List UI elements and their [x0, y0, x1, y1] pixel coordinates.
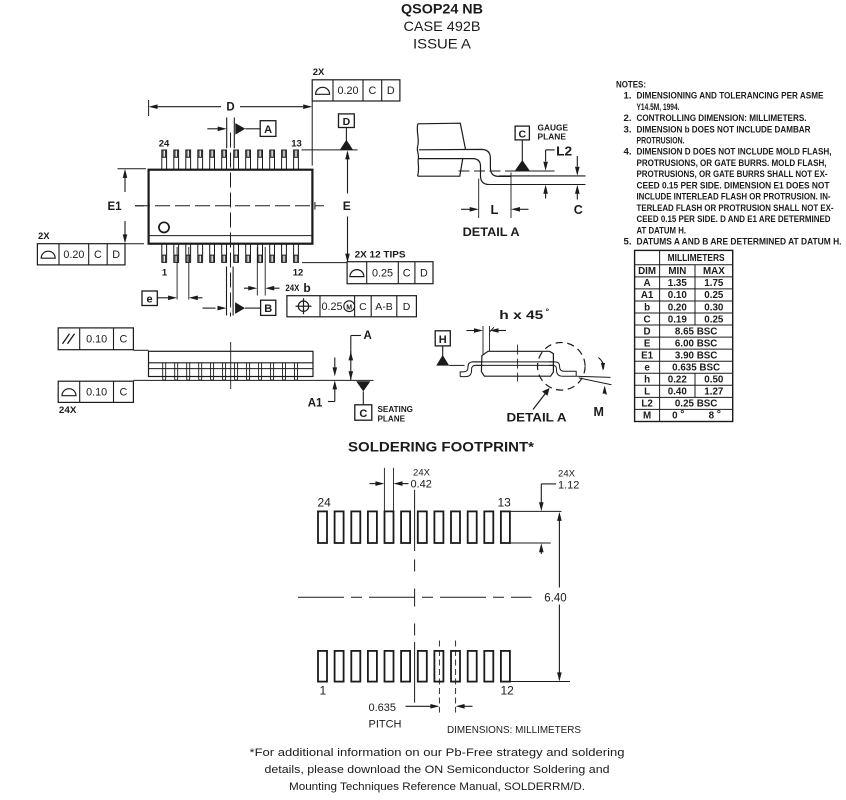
dimension 0.635 leader and arrows	[406, 705, 431, 707]
svg-text:E1: E1	[641, 350, 654, 361]
svg-text:CONTROLLING DIMENSION: MILLIME: CONTROLLING DIMENSION: MILLIMETERS.	[637, 113, 807, 124]
svg-text:0.22: 0.22	[668, 375, 688, 386]
svg-text:8.65 BSC: 8.65 BSC	[675, 326, 717, 337]
svg-text:1.12: 1.12	[558, 480, 579, 492]
svg-text:2X 12 TIPS: 2X 12 TIPS	[355, 250, 406, 261]
svg-text:PITCH: PITCH	[369, 719, 402, 731]
svg-text:0.10: 0.10	[86, 387, 107, 399]
svg-text:b: b	[303, 281, 310, 295]
end view right lead	[549, 362, 576, 376]
datum label B box	[261, 300, 276, 315]
footprint pad 6 bottom	[401, 651, 410, 682]
dimension b arrows	[244, 287, 249, 289]
side view body outline	[149, 351, 314, 376]
svg-text:2X: 2X	[313, 67, 325, 78]
feature control frame 0.25 C D (12 tips)	[347, 262, 433, 284]
svg-text:PLANE: PLANE	[378, 413, 406, 423]
pin 11 bottom lead	[282, 244, 287, 263]
svg-text:0.42: 0.42	[411, 479, 432, 491]
frame leader line left	[125, 243, 144, 245]
chamfer dimension h extension lines	[482, 326, 484, 355]
svg-text:DIMENSIONS: MILLIMETERS: DIMENSIONS: MILLIMETERS	[447, 725, 581, 736]
svg-text:1.27: 1.27	[704, 387, 724, 398]
side view centerline	[230, 342, 232, 389]
seating plane datum triangle	[356, 381, 370, 391]
lead angle M arc arrow upper	[598, 358, 603, 370]
svg-text:C: C	[359, 408, 367, 420]
centerline end tick	[314, 202, 316, 210]
side view lead 10	[271, 363, 274, 380]
svg-text:24X: 24X	[558, 469, 576, 480]
svg-text:C: C	[403, 267, 411, 279]
svg-text:INCLUDE INTERLEAD FLASH OR PRO: INCLUDE INTERLEAD FLASH OR PROTRUSION. I…	[637, 192, 831, 203]
footprint pad 16 top	[451, 511, 460, 543]
section arrow B	[203, 307, 216, 309]
svg-text:0.20: 0.20	[63, 249, 84, 261]
svg-text:4.: 4.	[624, 147, 632, 158]
pin tips datum line top	[302, 149, 358, 151]
pin 14 top lead	[282, 150, 287, 170]
dimension 0.42 extension lines	[383, 468, 385, 511]
svg-text:A1: A1	[641, 290, 654, 301]
svg-text:ISSUE A: ISSUE A	[413, 35, 472, 51]
pin 4 bottom lead	[198, 244, 203, 263]
package body top view	[149, 170, 313, 244]
svg-text:A: A	[644, 278, 651, 289]
dimension 0.42 arrows	[370, 483, 376, 485]
pin 8 bottom lead	[246, 244, 251, 263]
pin 1 indicator circle	[159, 222, 169, 232]
side view lead shoulder line	[149, 362, 314, 364]
svg-text:Y14.5M, 1994.: Y14.5M, 1994.	[637, 102, 680, 113]
svg-text:CASE 492B: CASE 492B	[404, 18, 481, 34]
svg-text:E1: E1	[107, 201, 122, 213]
pin 21 top lead	[198, 150, 203, 170]
svg-text:0.25: 0.25	[704, 290, 724, 301]
side view lead 6	[223, 363, 226, 380]
svg-text:2X: 2X	[38, 231, 50, 242]
pin 13 top lead	[294, 150, 299, 170]
svg-text:Mounting Techniques Reference: Mounting Techniques Reference Manual, SO…	[289, 781, 585, 793]
svg-text:PROTRUSIONS, OR GATE BURRS. MO: PROTRUSIONS, OR GATE BURRS. MOLD FLASH,	[637, 158, 827, 169]
pin 22 top lead	[186, 150, 191, 170]
svg-text:DIMENSIONING AND TOLERANCING P: DIMENSIONING AND TOLERANCING PER ASME	[637, 91, 825, 102]
lead angle M arrow lower	[605, 388, 607, 395]
svg-text:0.635 BSC: 0.635 BSC	[672, 363, 720, 374]
footprint pad 1 bottom	[318, 651, 327, 682]
svg-text:3.: 3.	[624, 124, 632, 135]
footprint pad 11 bottom	[484, 651, 493, 682]
gauge plane solid line	[510, 170, 555, 172]
dimension L extension lines	[478, 179, 480, 219]
svg-text:PROTRUSIONS, OR GATE BURRS SHA: PROTRUSIONS, OR GATE BURRS SHALL NOT EX-	[637, 169, 828, 180]
pin 23 top lead	[174, 150, 179, 170]
svg-text:6.00 BSC: 6.00 BSC	[675, 338, 717, 349]
svg-text:1.: 1.	[624, 91, 632, 102]
svg-text:L2: L2	[556, 144, 572, 158]
svg-text:e: e	[147, 294, 153, 306]
footprint pad 5 bottom	[385, 651, 394, 682]
dimension E1 arrows	[124, 171, 126, 192]
footprint horizontal centerline	[298, 596, 532, 598]
detail A callout dashed circle	[538, 343, 586, 391]
svg-text:C: C	[359, 301, 367, 313]
svg-text:A: A	[364, 330, 372, 342]
pin 12 bottom lead	[294, 244, 299, 263]
svg-text:E: E	[343, 199, 351, 213]
svg-text:C: C	[94, 249, 102, 261]
pin 1 bottom lead	[162, 244, 167, 263]
svg-text:°: °	[717, 408, 721, 420]
detail A lead gull-wing	[418, 149, 511, 184]
gauge plane leader and triangle	[521, 140, 523, 162]
side view lead 2	[175, 363, 178, 380]
dimension D extension line left	[148, 100, 150, 116]
parallelism frame 0.10 C	[58, 328, 133, 350]
detail A callout arrow	[533, 393, 546, 409]
position symbol	[298, 301, 308, 311]
horizontal centerline top view	[135, 205, 324, 207]
side view lead 5	[211, 363, 214, 380]
svg-text:D: D	[343, 116, 351, 128]
svg-text:0: 0	[672, 411, 678, 422]
svg-text:0.40: 0.40	[668, 387, 688, 398]
footprint pad 8 bottom	[434, 651, 443, 682]
datum D box	[339, 114, 355, 128]
body bottom inner line	[150, 235, 312, 237]
pin 6 bottom lead	[222, 244, 227, 263]
svg-text:DATUMS A AND B ARE DETERMINED: DATUMS A AND B ARE DETERMINED AT DATUM H…	[637, 236, 842, 247]
svg-text:°: °	[546, 307, 550, 317]
side view lead 3	[187, 363, 190, 380]
svg-text:H: H	[439, 334, 447, 346]
section arrow A	[207, 128, 218, 130]
svg-text:24: 24	[159, 138, 170, 149]
footprint pad 3 bottom	[351, 651, 360, 682]
side view lead 1	[163, 363, 166, 380]
feature control frame position 0.25 M C A-B D	[287, 296, 417, 317]
dimension E line lower	[347, 217, 349, 261]
svg-text:°: °	[680, 408, 684, 420]
dimension e box and label	[142, 291, 157, 306]
svg-text:C: C	[368, 85, 376, 97]
detail A lead foot lines	[499, 175, 586, 177]
dimension e arrows	[157, 297, 168, 299]
footprint pad 17 top	[434, 511, 443, 543]
svg-text:D: D	[644, 326, 651, 337]
side view lead 12	[295, 363, 298, 380]
pin 10 bottom lead	[270, 244, 275, 263]
footprint pad 13 top	[501, 511, 510, 543]
svg-text:A-B: A-B	[375, 301, 393, 313]
svg-text:A1: A1	[308, 397, 323, 409]
svg-text:M: M	[346, 304, 352, 311]
dimension table	[635, 250, 733, 421]
pin 15 top lead	[270, 150, 275, 170]
svg-text:h: h	[644, 375, 650, 386]
svg-text:0.30: 0.30	[704, 302, 724, 313]
footprint pad 21 top	[368, 511, 377, 543]
svg-text:0.10: 0.10	[86, 334, 107, 346]
dimension C arrows right	[576, 156, 578, 167]
svg-text:C: C	[644, 314, 651, 325]
svg-text:DIMENSION b DOES NOT INCLUDE D: DIMENSION b DOES NOT INCLUDE DAMBAR	[637, 124, 811, 135]
section cut lines B	[226, 267, 228, 316]
svg-text:C: C	[120, 387, 128, 399]
pin 18 top lead	[234, 150, 239, 170]
svg-text:M: M	[594, 405, 604, 419]
footprint vertical centerline	[414, 490, 416, 551]
datum H box	[435, 331, 450, 346]
svg-text:MAX: MAX	[703, 266, 725, 277]
end view body	[481, 351, 553, 376]
svg-text:5.: 5.	[624, 236, 632, 247]
svg-text:E: E	[644, 338, 651, 349]
pin 3 bottom lead	[186, 244, 191, 263]
svg-text:M: M	[643, 411, 651, 422]
footprint pad 15 top	[468, 511, 477, 543]
dimension D extension line right / frame leader	[311, 101, 313, 166]
dimension D line and label	[158, 106, 221, 108]
footprint pad 22 top	[351, 511, 360, 543]
pin 2 bottom lead	[174, 244, 179, 263]
footprint pad 18 top	[418, 511, 427, 543]
pin 5 bottom lead	[210, 244, 215, 263]
svg-text:6.40: 6.40	[544, 593, 566, 605]
bottom pads extension line right	[510, 681, 570, 683]
dimension b extension lines	[256, 247, 258, 296]
svg-text:2.: 2.	[624, 113, 632, 124]
svg-text:1: 1	[320, 684, 327, 698]
seating plane line	[133, 379, 373, 381]
pin 7 bottom lead	[234, 244, 239, 263]
pin 17 top lead	[246, 150, 251, 170]
svg-text:b: b	[644, 302, 650, 313]
side view lead 7	[235, 363, 238, 380]
svg-text:C: C	[574, 203, 583, 217]
svg-text:0.25: 0.25	[372, 267, 393, 279]
svg-text:C: C	[519, 128, 527, 140]
svg-text:CEED 0.15 PER SIDE. DIMENSION: CEED 0.15 PER SIDE. DIMENSION E1 DOES NO…	[637, 180, 830, 191]
svg-text:CEED 0.15 PER SIDE. D AND E1 A: CEED 0.15 PER SIDE. D AND E1 ARE DETERMI…	[637, 214, 831, 225]
end view lead row lines	[472, 361, 554, 363]
footprint pad 20 top	[385, 511, 394, 543]
pin 19 top lead	[222, 150, 227, 170]
svg-text:D: D	[112, 249, 120, 261]
svg-text:0.25: 0.25	[704, 314, 724, 325]
svg-text:24X: 24X	[413, 468, 431, 479]
profile frame leader	[130, 380, 149, 382]
lead angle M lines	[576, 376, 610, 377]
dimension 6.40 line	[558, 514, 560, 588]
pin tips line bottom	[302, 262, 348, 264]
profile frame 0.10 C bottom left	[58, 381, 133, 402]
svg-text:PLANE: PLANE	[538, 132, 567, 142]
side view lead 8	[247, 363, 250, 380]
E1 centerline dash to body	[135, 205, 144, 207]
svg-text:DIM: DIM	[638, 266, 656, 277]
footprint pad 12 bottom	[501, 651, 510, 682]
dimension A arrows	[349, 351, 354, 360]
dimension E1 extension line top	[118, 168, 147, 170]
svg-text:D: D	[387, 85, 395, 97]
svg-text:DETAIL A: DETAIL A	[507, 413, 567, 425]
datum D leader and filled triangle	[345, 128, 347, 142]
svg-text:L: L	[644, 387, 650, 398]
dimension E line upper	[347, 153, 349, 194]
svg-text:0.20: 0.20	[337, 85, 358, 97]
footprint pad 4 bottom	[368, 651, 377, 682]
svg-text:D: D	[403, 301, 411, 313]
svg-text:1.35: 1.35	[668, 278, 688, 289]
gauge plane dashed line	[459, 170, 514, 172]
feature control frame 0.20 C D top right	[312, 80, 400, 101]
section cut lines A	[226, 118, 228, 149]
pin 20 top lead	[210, 150, 215, 170]
svg-text:AT DATUM H.: AT DATUM H.	[637, 225, 687, 236]
svg-text:MILLIMETERS: MILLIMETERS	[668, 253, 725, 264]
footprint pad 9 bottom	[451, 651, 460, 682]
footprint pad 19 top	[401, 511, 410, 543]
svg-text:24: 24	[318, 496, 332, 510]
pad bottom extension line right	[510, 542, 551, 544]
svg-text:L2: L2	[641, 399, 653, 410]
dimension L arrows and label	[461, 208, 470, 210]
svg-text:PROTRUSION.: PROTRUSION.	[637, 136, 685, 147]
footprint pad 24 top	[318, 511, 327, 543]
vertical centerline top view	[230, 133, 232, 317]
end view left lead	[460, 362, 481, 377]
chamfer dimension arrows	[467, 330, 475, 332]
svg-text:0.25: 0.25	[321, 301, 342, 313]
svg-text:24X: 24X	[285, 283, 300, 294]
svg-text:0.20: 0.20	[668, 302, 688, 313]
svg-text:0.635: 0.635	[369, 702, 397, 714]
pin 16 top lead	[258, 150, 263, 170]
svg-text:0.10: 0.10	[668, 290, 688, 301]
dimension 1.12 leader	[540, 484, 542, 503]
svg-text:12: 12	[293, 268, 304, 279]
svg-text:e: e	[644, 363, 650, 374]
feature control frame 0.20 C D left	[37, 244, 125, 265]
dimension e extension lines	[176, 247, 178, 300]
svg-text:8: 8	[709, 411, 715, 422]
svg-text:12: 12	[501, 684, 515, 698]
side view lead 4	[199, 363, 202, 380]
footprint pad 23 top	[335, 511, 344, 543]
svg-text:1: 1	[162, 268, 168, 279]
dimension A1 arrows	[334, 358, 336, 369]
svg-text:C: C	[120, 334, 128, 346]
datum label A box	[260, 121, 276, 137]
svg-text:details, please download the O: details, please download the ON Semicond…	[265, 764, 610, 776]
svg-text:0.50: 0.50	[704, 375, 724, 386]
pitch dashed centerlines pads 8 and 9	[438, 641, 440, 713]
svg-text:D: D	[420, 267, 428, 279]
svg-text:TERLEAD FLASH OR PROTRUSION SH: TERLEAD FLASH OR PROTRUSION SHALL NOT EX…	[637, 203, 834, 214]
svg-text:DETAIL A: DETAIL A	[463, 227, 520, 239]
detail A body section with break lines	[417, 123, 465, 176]
seating plane datum C box	[355, 405, 372, 420]
svg-text:L: L	[491, 202, 499, 217]
svg-text:A: A	[264, 124, 272, 136]
pin 9 bottom lead	[258, 244, 263, 263]
gauge plane datum C box	[515, 126, 529, 140]
side view lead 9	[259, 363, 262, 380]
footprint pad 14 top	[484, 511, 493, 543]
svg-text:24X: 24X	[59, 405, 77, 416]
side view lead 11	[283, 363, 286, 380]
pin 24 top lead	[162, 150, 167, 170]
footprint pad 7 bottom	[418, 651, 427, 682]
svg-text:1.75: 1.75	[704, 278, 724, 289]
pad top extension line right	[510, 510, 562, 512]
svg-text:D: D	[226, 102, 234, 114]
side view body bottom line	[149, 368, 314, 370]
svg-text:B: B	[264, 303, 272, 315]
svg-text:h x 45: h x 45	[499, 310, 544, 322]
svg-text:0.19: 0.19	[668, 314, 688, 325]
svg-text:MIN: MIN	[668, 266, 686, 277]
svg-text:3.90 BSC: 3.90 BSC	[675, 350, 717, 361]
svg-text:13: 13	[291, 138, 302, 149]
dimension L2 lower arrow	[545, 194, 547, 199]
svg-text:SOLDERING FOOTPRINT*: SOLDERING FOOTPRINT*	[348, 440, 535, 455]
parallelism frame leader	[133, 349, 148, 351]
svg-text:QSOP24 NB: QSOP24 NB	[401, 0, 483, 16]
footprint pad 10 bottom	[468, 651, 477, 682]
svg-text:13: 13	[498, 496, 512, 510]
datum H line	[449, 364, 464, 366]
datum H leader and triangle	[442, 346, 444, 357]
svg-text:*For additional information on: *For additional information on our Pb-Fr…	[250, 747, 625, 759]
svg-text:NOTES:: NOTES:	[616, 79, 646, 90]
svg-text:DIMENSION D DOES NOT INCLUDE M: DIMENSION D DOES NOT INCLUDE MOLD FLASH,	[637, 147, 832, 158]
end view centerline	[517, 345, 519, 382]
footprint pad 2 bottom	[335, 651, 344, 682]
